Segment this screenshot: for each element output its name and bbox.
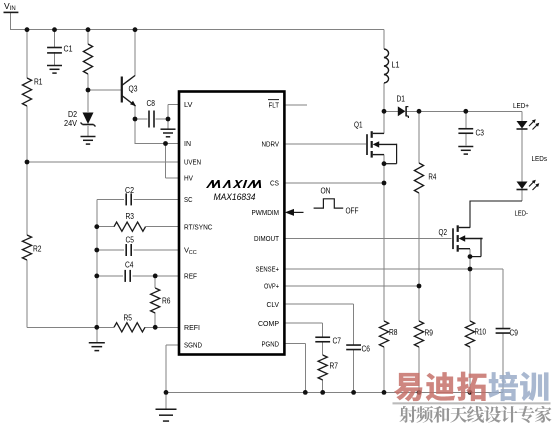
svg-text:IN: IN: [184, 139, 191, 148]
svg-text:UVEN: UVEN: [184, 158, 201, 167]
svg-text:LEDs: LEDs: [532, 154, 548, 163]
svg-text:R4: R4: [428, 171, 436, 181]
svg-text:HV: HV: [184, 174, 193, 183]
svg-text:R1: R1: [34, 77, 43, 87]
svg-text:OVP+: OVP+: [264, 282, 279, 291]
svg-text:R9: R9: [425, 328, 434, 338]
svg-text:ON: ON: [321, 187, 331, 196]
svg-text:R6: R6: [162, 296, 171, 306]
svg-text:C2: C2: [125, 185, 134, 195]
svg-text:REFI: REFI: [184, 323, 200, 332]
svg-text:Q1: Q1: [354, 120, 363, 130]
svg-text:R8: R8: [389, 327, 398, 337]
svg-text:C5: C5: [126, 235, 135, 245]
svg-text:R7: R7: [330, 361, 339, 371]
svg-text:PGND: PGND: [262, 339, 280, 348]
svg-text:LED-: LED-: [515, 209, 529, 218]
svg-text:Q2: Q2: [439, 227, 448, 237]
svg-text:SENSE+: SENSE+: [256, 265, 280, 274]
svg-text:RT/SYNC: RT/SYNC: [184, 222, 213, 231]
svg-text:FLT: FLT: [269, 101, 280, 110]
svg-text:SGND: SGND: [184, 341, 202, 350]
svg-text:C4: C4: [125, 260, 134, 270]
svg-text:SC: SC: [184, 195, 193, 204]
svg-text:R2: R2: [33, 244, 42, 254]
svg-text:VIN: VIN: [4, 1, 16, 12]
svg-text:C1: C1: [64, 44, 73, 54]
svg-text:R3: R3: [126, 211, 135, 221]
svg-text:C7: C7: [333, 336, 342, 346]
svg-text:NDRV: NDRV: [262, 140, 280, 149]
svg-text:R10: R10: [475, 327, 487, 337]
svg-text:24V: 24V: [64, 118, 77, 128]
svg-text:CS: CS: [270, 179, 279, 188]
svg-text:D1: D1: [397, 94, 406, 104]
svg-text:OFF: OFF: [346, 206, 359, 215]
svg-text:LED+: LED+: [513, 101, 530, 110]
svg-text:PWMDIM: PWMDIM: [252, 208, 280, 217]
svg-text:L1: L1: [392, 60, 400, 70]
svg-text:C3: C3: [476, 128, 485, 138]
svg-text:CC: CC: [189, 250, 197, 256]
svg-text:COMP: COMP: [258, 319, 279, 328]
svg-text:R5: R5: [124, 313, 133, 323]
svg-text:Q3: Q3: [129, 84, 138, 94]
svg-text:MAX16834: MAX16834: [214, 192, 256, 203]
svg-text:C8: C8: [147, 98, 156, 108]
svg-text:DIMOUT: DIMOUT: [254, 234, 279, 243]
svg-text:REF: REF: [184, 272, 197, 281]
svg-text:CLV: CLV: [267, 300, 280, 309]
svg-text:C6: C6: [362, 344, 371, 354]
svg-text:LV: LV: [184, 100, 193, 109]
svg-text:C9: C9: [510, 328, 519, 338]
